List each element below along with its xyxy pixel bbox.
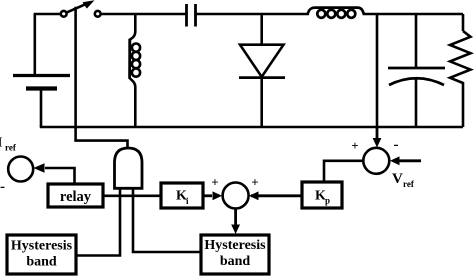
label hysteresis band 2 [204,238,266,269]
wire switch sense line down [76,7,128,148]
block Kp [302,182,342,208]
summing junction (voltage) [363,148,389,174]
arrowhead Ki into PI summer [213,191,223,200]
svg-text:+: + [251,175,258,190]
wire bottom rail [40,126,463,129]
svg-text:p: p [325,196,330,206]
capacitor (series, top) [187,4,196,27]
arrowhead into voltage summer [373,138,382,148]
wire battery riser [33,14,36,75]
wire battery to bottom rail [40,89,43,127]
wire voltage summer to Kp [324,161,363,182]
wire PI summer output down [234,209,237,228]
battery [13,76,70,89]
svg-text:+: + [351,138,358,153]
label hysteresis band 1 [11,239,73,270]
block relay [48,184,103,207]
label Ki [176,189,189,206]
wire Ki output to PI summer [203,194,212,197]
arrowhead Kp into PI summer [249,191,259,200]
wire Kp output to PI summer [251,194,302,197]
svg-text:Hysteresis: Hysteresis [11,239,73,254]
wire top rail switch to series capacitor [101,13,186,16]
wire voltage sense branch [376,14,379,127]
wire top rail left segment [34,13,62,16]
wire gate left leg to hysteresis band 1 [76,188,120,255]
arrowhead into hysteresis band 2 [231,225,240,235]
diode [239,14,285,127]
label Kp [315,188,330,205]
arrowhead relay into Iref summer [34,163,45,172]
wire gate right leg to hysteresis band 2 [133,188,201,252]
svg-text:-: - [0,179,5,195]
wire relay output to Iref summer [45,168,75,184]
inductor (series, output) [308,8,365,18]
svg-text:band: band [26,255,57,270]
block hysteresis band 2 [201,235,269,274]
svg-text:ref: ref [403,179,415,189]
label Vref [392,171,415,189]
wire top rail capacitor to inductor [197,13,309,16]
svg-text:V: V [392,171,403,187]
wire top rail inductor to right corner [363,13,463,16]
svg-text:Hysteresis: Hysteresis [204,238,266,253]
wire Vref input [394,159,421,162]
summing junction (PI) [223,183,249,209]
svg-text:-: - [394,137,399,153]
svg-text:ref: ref [5,143,17,153]
inductor (shunt, vertical) [130,14,140,127]
block hysteresis band 1 [7,235,76,274]
svg-text:I: I [0,136,2,151]
switch [61,0,101,17]
wire voltage sense to summer [376,127,379,141]
svg-text:band: band [220,254,251,269]
block Ki [161,183,203,208]
summing junction (Iref) [8,157,33,182]
svg-text:i: i [186,196,189,206]
svg-text:relay: relay [60,189,92,205]
arrowhead Vref into summer [390,156,400,165]
gate (AND shape) [115,148,143,188]
label Iref [0,136,17,153]
wire relay to Ki [103,195,161,198]
capacitor (output) [388,14,445,127]
svg-text:+: + [211,175,218,190]
resistor (load) [450,14,471,127]
